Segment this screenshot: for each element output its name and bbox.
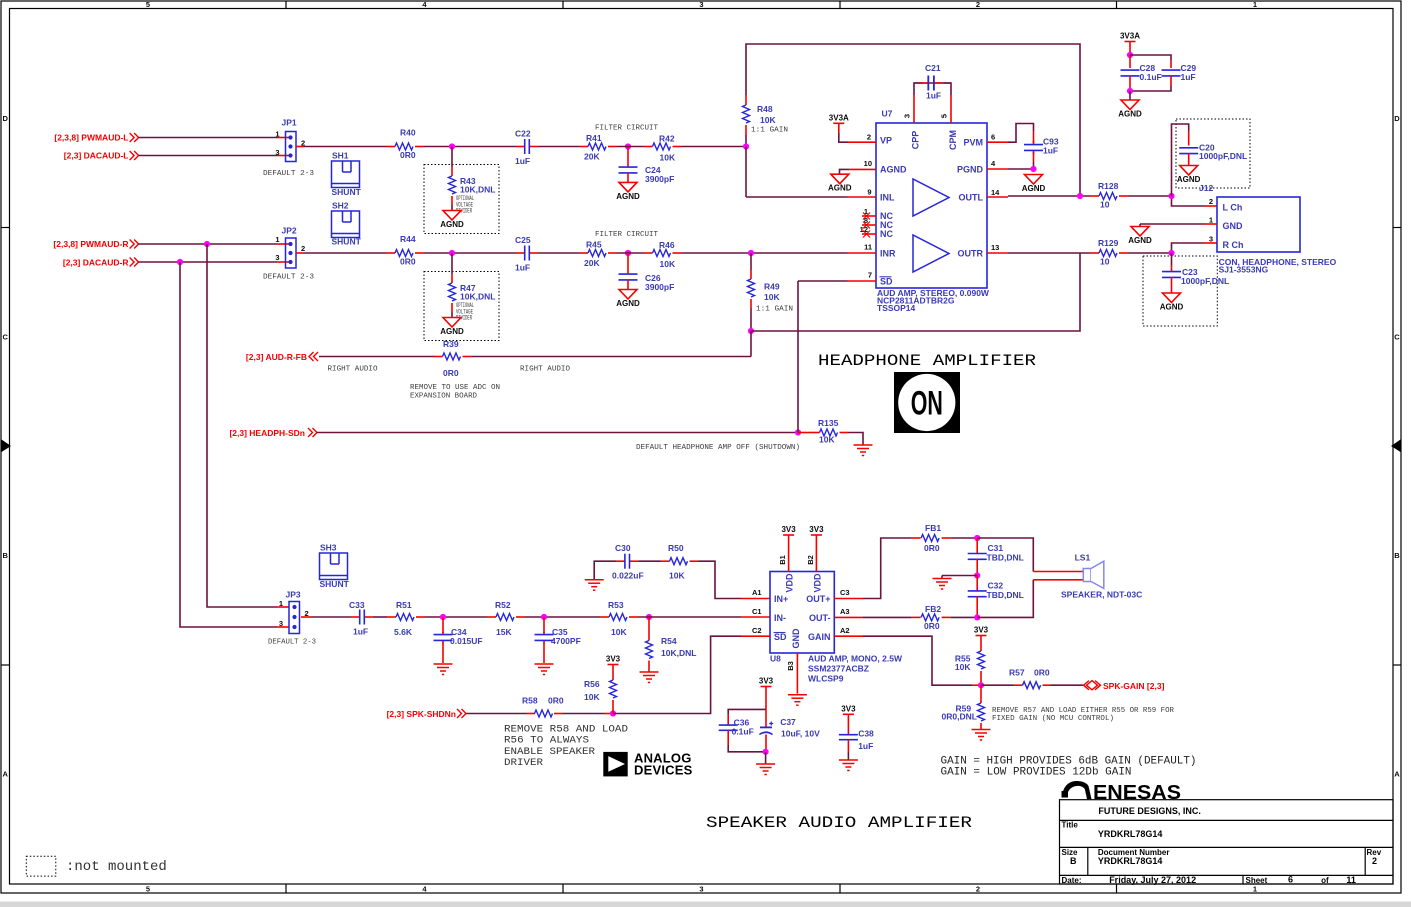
- svg-text:3: 3: [275, 148, 279, 157]
- svg-text:SHUNT: SHUNT: [320, 579, 350, 589]
- wire R42 to INL node: [682, 146, 747, 148]
- svg-text:INL: INL: [880, 193, 895, 203]
- junction row2 R47 tap: [449, 250, 455, 256]
- wire C30 to R50: [638, 560, 660, 562]
- resistor R39: [434, 339, 472, 378]
- resistor R58: [522, 696, 564, 718]
- resistor R135: [798, 418, 848, 445]
- svg-text:1000pF,DNL: 1000pF,DNL: [1199, 151, 1247, 161]
- junction C31 top: [974, 535, 980, 541]
- resistor R48: [743, 95, 777, 147]
- power 3V3A C28: [1120, 32, 1140, 56]
- svg-text:2: 2: [1209, 197, 1213, 206]
- svg-text:10K: 10K: [660, 259, 676, 269]
- svg-text:1uF: 1uF: [515, 156, 530, 166]
- wire FB1 to C31: [951, 537, 978, 539]
- svg-text:R42: R42: [659, 134, 675, 144]
- svg-text:0R0,DNL: 0R0,DNL: [942, 712, 977, 722]
- ground GND R59: [972, 730, 991, 741]
- junction GAIN node: [978, 682, 984, 688]
- junction OUTR feedback: [748, 328, 754, 334]
- wire feedback to AUD-R-FB: [750, 331, 752, 357]
- wire R45 to R46: [617, 252, 644, 254]
- svg-text:FILTER CIRCUIT: FILTER CIRCUIT: [595, 231, 658, 239]
- svg-text:[2,3] HEADPH-SDn: [2,3] HEADPH-SDn: [229, 428, 305, 438]
- svg-text:OUT-: OUT-: [809, 613, 831, 623]
- svg-text:C21: C21: [925, 63, 941, 73]
- svg-text:13: 13: [991, 243, 999, 252]
- resistor R46: [644, 240, 682, 269]
- power 3V3 C38: [841, 704, 856, 735]
- svg-text:R49: R49: [764, 282, 780, 292]
- junction C34 tap: [440, 614, 446, 620]
- wire DACAUD-R to JP2.3: [139, 261, 289, 263]
- svg-text:10: 10: [864, 159, 872, 168]
- svg-text:SHUNT: SHUNT: [332, 237, 362, 247]
- svg-text:L Ch: L Ch: [1223, 203, 1243, 213]
- power 3V3 R56: [606, 655, 621, 681]
- svg-text:3: 3: [1209, 235, 1213, 244]
- svg-text:0R0: 0R0: [548, 696, 564, 706]
- wire R57 to SPK-GAIN: [1051, 684, 1083, 686]
- svg-text:AGND: AGND: [1022, 184, 1046, 193]
- svg-text:6: 6: [1288, 875, 1293, 885]
- wire OUT- to FB2: [834, 616, 911, 618]
- svg-text:10K: 10K: [955, 662, 971, 672]
- svg-text:PVM: PVM: [963, 138, 983, 148]
- power 3V3A VP: [829, 113, 849, 142]
- svg-text:OUTL: OUTL: [959, 193, 984, 203]
- junction C28 top: [1127, 52, 1133, 58]
- svg-text:TBD,DNL: TBD,DNL: [987, 590, 1024, 600]
- wire R53 to U8 IN-: [638, 616, 770, 618]
- svg-text:A3: A3: [840, 607, 850, 616]
- capacitor C20 not mounted: [1172, 119, 1251, 196]
- svg-text:A: A: [1394, 770, 1400, 779]
- svg-text:B1: B1: [778, 555, 787, 565]
- svg-text:R51: R51: [396, 600, 412, 610]
- svg-text:WLCSP9: WLCSP9: [808, 673, 844, 683]
- svg-text:1uF: 1uF: [858, 741, 873, 751]
- junction DACAUD-R tap: [177, 259, 183, 265]
- edge arrow markers: [2, 440, 12, 453]
- svg-text:10K: 10K: [660, 153, 676, 163]
- svg-text:DEFAULT 2-3: DEFAULT 2-3: [263, 274, 315, 282]
- svg-text:10K,DNL: 10K,DNL: [460, 185, 495, 195]
- svg-text:10K: 10K: [669, 571, 685, 581]
- svg-text:20K: 20K: [584, 258, 600, 268]
- svg-text:R40: R40: [400, 128, 416, 138]
- junction C28 bottom: [1127, 88, 1133, 94]
- svg-text:OUT+: OUT+: [806, 594, 830, 604]
- svg-text:R58: R58: [522, 696, 538, 706]
- title block: [1060, 800, 1394, 884]
- wire mid to ground: [942, 576, 977, 579]
- ground GND C38: [839, 760, 858, 771]
- wire OUTR feedback loop: [751, 253, 1080, 331]
- svg-text:FB2: FB2: [925, 604, 941, 614]
- svg-text:2: 2: [976, 885, 980, 894]
- shunt SH3: [320, 543, 350, 589]
- svg-text:SJ1-3553NG: SJ1-3553NG: [1219, 265, 1269, 275]
- wire PWMAUD-L to JP1.1: [139, 137, 289, 139]
- svg-text:DEFAULT 2-3: DEFAULT 2-3: [268, 639, 316, 647]
- svg-text:R128: R128: [1098, 181, 1119, 191]
- svg-text:R44: R44: [400, 234, 416, 244]
- svg-text:JP3: JP3: [286, 590, 301, 600]
- svg-text:SSM2377ACBZ: SSM2377ACBZ: [808, 663, 869, 673]
- capacitor C21: [914, 63, 951, 123]
- op-amp U7: [860, 109, 1001, 314]
- svg-text:CPM: CPM: [948, 130, 958, 150]
- wire speaker top rail: [977, 538, 1083, 572]
- svg-text:C: C: [2, 333, 8, 342]
- capacitor C34: [434, 617, 483, 663]
- net label PWMAUD-L: [54, 133, 138, 143]
- svg-text:C33: C33: [349, 600, 365, 610]
- wire AGND pin10: [840, 169, 877, 174]
- capacitor C28: [1121, 55, 1162, 91]
- svg-text:10K,DNL: 10K,DNL: [661, 648, 696, 658]
- wire R46 to INR node: [682, 252, 752, 254]
- ground GND R135: [854, 445, 873, 456]
- capacitor C35: [535, 617, 581, 663]
- svg-text:[2,3,8] PWMAUD-R: [2,3,8] PWMAUD-R: [53, 239, 128, 249]
- wire PVM to C93: [987, 124, 1034, 143]
- wire R41 to R42: [617, 146, 644, 148]
- net label DACAUD-L: [64, 151, 139, 161]
- svg-text:REMOVE R57 AND LOAD EITHER R55: REMOVE R57 AND LOAD EITHER R55 OR R59 FO…: [992, 707, 1174, 715]
- svg-text:R53: R53: [608, 600, 624, 610]
- svg-text:FUTURE DESIGNS, INC.: FUTURE DESIGNS, INC.: [1098, 806, 1201, 816]
- capacitor C23 not mounted: [1143, 253, 1229, 326]
- nc pin 8: [862, 222, 876, 229]
- ground GND U8: [788, 695, 807, 706]
- svg-text:0R0: 0R0: [400, 257, 416, 267]
- wire OUTL feedback loop: [746, 44, 1080, 196]
- wire R40 to C22: [424, 146, 516, 148]
- svg-text:10K: 10K: [819, 435, 835, 445]
- svg-text:AGND: AGND: [1128, 236, 1152, 245]
- svg-text:VP: VP: [880, 136, 892, 146]
- resistor R45: [579, 240, 617, 269]
- resistor R52: [487, 600, 525, 637]
- svg-text:EXPANSION BOARD: EXPANSION BOARD: [410, 393, 477, 401]
- svg-text:0.015UF: 0.015UF: [450, 636, 483, 646]
- wire HEADPH-SDn to R135: [317, 432, 798, 434]
- ground AGND C24: [616, 182, 640, 201]
- junction SD tap: [795, 429, 801, 435]
- junction row1 C24 tap: [625, 143, 631, 149]
- svg-text:A2: A2: [840, 626, 850, 635]
- net label HEADPH-SDn: [229, 428, 317, 438]
- svg-text:0R0: 0R0: [924, 543, 940, 553]
- svg-text:2: 2: [976, 0, 980, 9]
- wire R52 to C35 junction: [525, 616, 600, 618]
- Analog Devices logo: [603, 750, 692, 777]
- ON Semiconductor logo: [894, 372, 960, 433]
- wire J12 GND pin1: [1140, 224, 1217, 227]
- capacitor C38: [839, 728, 874, 760]
- wire R135 to ground: [848, 433, 863, 446]
- svg-text:YRDKRL78G14: YRDKRL78G14: [1098, 856, 1163, 866]
- nc pin 12: [862, 231, 876, 238]
- svg-text:AGND: AGND: [1160, 303, 1184, 312]
- not mounted legend: [26, 856, 167, 876]
- svg-text:D: D: [1394, 114, 1400, 123]
- jumper JP1: [263, 118, 315, 179]
- wire JP1.2 to R40: [296, 146, 386, 148]
- net label SPK-SHDNn: [387, 709, 466, 719]
- svg-text:[2,3] DACAUD-L: [2,3] DACAUD-L: [64, 151, 129, 161]
- svg-text:R54: R54: [661, 636, 677, 646]
- svg-text:1uF: 1uF: [926, 91, 941, 101]
- svg-text:IN+: IN+: [774, 594, 788, 604]
- svg-text:A: A: [2, 770, 8, 779]
- svg-text:C3: C3: [840, 588, 850, 597]
- svg-text:3V3A: 3V3A: [829, 113, 849, 122]
- resistor R129: [1090, 238, 1128, 267]
- right audio labels: [328, 366, 571, 374]
- resistor R40: [386, 128, 424, 161]
- svg-text:10: 10: [1100, 200, 1110, 210]
- svg-text:FIXED GAIN (NO MCU CONTROL): FIXED GAIN (NO MCU CONTROL): [992, 715, 1114, 723]
- svg-text:2: 2: [301, 244, 305, 253]
- svg-text:AGND: AGND: [616, 299, 640, 308]
- svg-text:3V3: 3V3: [809, 525, 824, 534]
- svg-text:SPEAKER, NDT-03C: SPEAKER, NDT-03C: [1061, 589, 1142, 599]
- ground AGND R47: [440, 318, 464, 337]
- ground GND C30: [585, 580, 604, 591]
- svg-text:[2,3] DACAUD-R: [2,3] DACAUD-R: [63, 258, 129, 268]
- svg-text:C32: C32: [988, 581, 1004, 591]
- ground AGND C26: [616, 290, 640, 309]
- resistor R128: [1090, 181, 1128, 210]
- jumper JP3: [268, 590, 316, 647]
- svg-text:0R0: 0R0: [1034, 668, 1050, 678]
- svg-text:ON: ON: [911, 385, 943, 423]
- net label PWMAUD-R: [53, 239, 138, 249]
- wire R56 junction to U8 SD: [613, 636, 770, 713]
- svg-text:3V3: 3V3: [606, 655, 621, 664]
- wire R39 to OUTR feedback node: [472, 356, 752, 358]
- resistor R55: [955, 651, 985, 685]
- svg-text:C22: C22: [515, 129, 531, 139]
- svg-text:1: 1: [275, 130, 279, 139]
- capacitor C31 not mounted: [968, 538, 1024, 576]
- resistor R53: [600, 600, 638, 637]
- svg-text:RIGHT AUDIO: RIGHT AUDIO: [328, 366, 378, 374]
- enable speaker note: [504, 724, 628, 769]
- svg-text:0R0: 0R0: [400, 150, 416, 160]
- junction OUTL feedback: [1077, 193, 1083, 199]
- svg-text:of: of: [1321, 876, 1329, 885]
- svg-text:B: B: [1394, 551, 1400, 560]
- svg-text:3V3: 3V3: [974, 626, 989, 635]
- ground GND C35: [535, 664, 554, 675]
- resistor R50: [661, 543, 699, 580]
- svg-text:SPK-GAIN [2,3]: SPK-GAIN [2,3]: [1103, 681, 1165, 691]
- junction R54 tap: [646, 614, 652, 620]
- junction C36 C37: [763, 749, 769, 755]
- ground AGND C20: [1177, 166, 1201, 185]
- svg-text:C2: C2: [752, 626, 762, 635]
- ground GND C34: [434, 664, 453, 675]
- power 3V3 R55: [974, 626, 989, 652]
- capacitor C24: [619, 147, 675, 185]
- svg-text:AGND: AGND: [880, 165, 907, 175]
- svg-text:R48: R48: [757, 104, 773, 114]
- junction INR node: [748, 250, 754, 256]
- svg-text:C38: C38: [858, 728, 874, 738]
- svg-text:NC: NC: [880, 229, 893, 239]
- ground GND C37: [756, 752, 775, 775]
- svg-text:11: 11: [864, 243, 872, 252]
- svg-text:20K: 20K: [584, 152, 600, 162]
- svg-text:5: 5: [940, 114, 949, 118]
- svg-text:C30: C30: [615, 543, 631, 553]
- wire R44 to C25: [424, 252, 516, 254]
- resistor R54: [646, 617, 697, 672]
- svg-text:Date:: Date:: [1062, 876, 1082, 885]
- wire U8 GND B3: [796, 653, 798, 694]
- svg-text:[2,3] AUD-R-FB: [2,3] AUD-R-FB: [246, 352, 307, 362]
- svg-text:R41: R41: [586, 133, 602, 143]
- svg-text:3V3: 3V3: [841, 704, 856, 713]
- net label AUD-R-FB: [246, 352, 318, 362]
- ground AGND C28: [1118, 91, 1142, 119]
- svg-text:R52: R52: [495, 600, 511, 610]
- capacitor C22: [515, 129, 538, 167]
- svg-text:Friday, July 27, 2012: Friday, July 27, 2012: [1109, 875, 1196, 885]
- resistor R47 optional divider: [424, 253, 499, 341]
- wire PGND pin4: [987, 168, 1034, 170]
- svg-text:GND: GND: [791, 628, 801, 649]
- svg-text:1uF: 1uF: [1043, 146, 1058, 156]
- ferrite FB2: [912, 604, 951, 631]
- svg-text:JP2: JP2: [282, 225, 297, 235]
- ground AGND PGND: [1022, 175, 1046, 194]
- svg-text:AGND: AGND: [1118, 110, 1142, 119]
- capacitor C93: [1024, 131, 1059, 169]
- svg-text:[2,3,8] PWMAUD-L: [2,3,8] PWMAUD-L: [54, 133, 128, 143]
- svg-text:4700PF: 4700PF: [551, 636, 581, 646]
- svg-text:10uF, 10V: 10uF, 10V: [781, 728, 820, 738]
- junction row1 R43 tap: [449, 143, 455, 149]
- remove note ADC: [410, 384, 500, 401]
- junction INL node: [743, 143, 749, 149]
- svg-text:J12: J12: [1199, 183, 1213, 193]
- junction R56 node: [610, 710, 616, 716]
- wire FB2 to C32: [951, 616, 978, 618]
- wire C22 to R41: [538, 146, 579, 148]
- wire PWMAUD-R to JP2.1: [139, 243, 289, 245]
- junction PWMAUD-R tap: [204, 241, 210, 247]
- svg-text:10K: 10K: [584, 692, 600, 702]
- capacitor C25: [515, 235, 538, 273]
- junction RCh C23 tap: [1168, 250, 1174, 256]
- svg-text:SHUNT: SHUNT: [332, 187, 362, 197]
- svg-text:LS1: LS1: [1075, 553, 1091, 563]
- resistor R42: [644, 134, 682, 163]
- bottom gray strip: [0, 902, 1411, 907]
- svg-text:5: 5: [146, 885, 150, 894]
- svg-text:D: D: [2, 114, 8, 123]
- wire DACAUD-R to JP3.3: [180, 262, 289, 627]
- svg-text:DEVICES: DEVICES: [634, 763, 693, 778]
- svg-text:AGND: AGND: [1177, 175, 1201, 184]
- capacitor C29: [1130, 55, 1196, 91]
- svg-text:11: 11: [1346, 875, 1356, 885]
- wire SD pin7: [798, 281, 876, 433]
- power 3V3 U8 B2: [809, 525, 824, 572]
- svg-text:7: 7: [868, 271, 872, 280]
- svg-text:0.022uF: 0.022uF: [612, 571, 644, 581]
- capacitor C33: [349, 600, 373, 637]
- svg-text:SH3: SH3: [320, 543, 337, 553]
- wire AUD-R-FB to R39: [319, 356, 434, 358]
- svg-text:INR: INR: [880, 249, 896, 259]
- svg-text:AGND: AGND: [828, 184, 852, 193]
- svg-text:10K,DNL: 10K,DNL: [460, 292, 495, 302]
- svg-text:3: 3: [699, 885, 703, 894]
- svg-text:5.6K: 5.6K: [394, 627, 413, 637]
- Renesas logo: [1062, 781, 1182, 804]
- wire OUTL to R128: [987, 196, 1090, 197]
- svg-text:[2,3] SPK-SHDNn: [2,3] SPK-SHDNn: [387, 709, 456, 719]
- wire JP2.2 to R44: [296, 252, 386, 254]
- power 3V3 U8 B1: [781, 525, 796, 572]
- svg-text:B3: B3: [786, 661, 795, 671]
- svg-text:2: 2: [1372, 856, 1377, 866]
- svg-text:2: 2: [867, 132, 871, 141]
- jumper JP2: [263, 225, 315, 281]
- svg-text:0R0: 0R0: [443, 368, 459, 378]
- svg-text:VDD: VDD: [785, 573, 795, 593]
- svg-text:R39: R39: [443, 339, 459, 349]
- wire R129 to J12 RCh: [1128, 243, 1217, 253]
- wire PWMAUD-R to JP3.1: [207, 244, 289, 607]
- svg-text:U7: U7: [882, 109, 893, 119]
- wire INL node to U7: [746, 147, 876, 198]
- nc pin 1: [862, 213, 876, 220]
- svg-text:1000pF,DNL: 1000pF,DNL: [1181, 276, 1229, 286]
- svg-text:1uF: 1uF: [1181, 72, 1196, 82]
- resistor R59: [942, 685, 985, 729]
- svg-text:1:1 GAIN: 1:1 GAIN: [756, 306, 793, 314]
- svg-text:C25: C25: [515, 235, 531, 245]
- ground GND R54: [640, 672, 659, 683]
- junction C35 tap: [541, 614, 547, 620]
- resistor R57: [981, 668, 1052, 689]
- junction LCh C20 tap: [1168, 193, 1174, 199]
- wire C33 to R51: [373, 616, 387, 618]
- svg-text:SPEAKER AUDIO AMPLIFIER: SPEAKER AUDIO AMPLIFIER: [706, 814, 972, 832]
- svg-text:VDD: VDD: [813, 573, 823, 593]
- resistor R49: [748, 253, 781, 331]
- ground AGND C23: [1160, 293, 1184, 312]
- svg-text:C31: C31: [988, 543, 1004, 553]
- capacitor C36: [719, 709, 766, 751]
- capacitor C32 not mounted: [968, 576, 1024, 618]
- shunt SH1: [332, 151, 362, 197]
- svg-text:B: B: [1070, 856, 1077, 866]
- svg-text:B: B: [2, 551, 8, 560]
- audio amp U8: [752, 555, 903, 683]
- svg-text:GND: GND: [1223, 221, 1244, 231]
- ground AGND pin10: [828, 174, 852, 193]
- fixed gain note: [992, 707, 1174, 723]
